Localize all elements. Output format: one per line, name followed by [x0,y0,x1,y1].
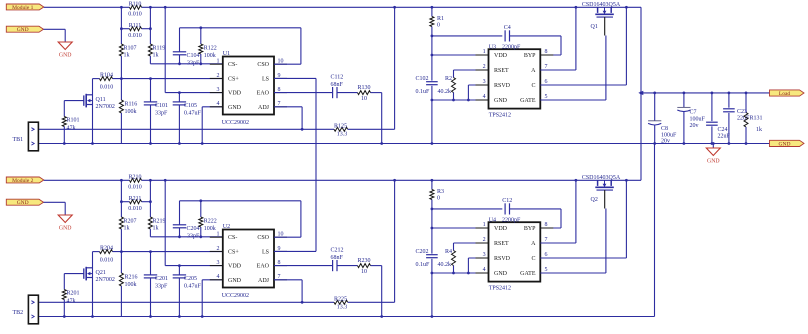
svg-text:Load: Load [779,91,791,97]
svg-text:R119: R119 [153,46,166,52]
svg-text:R110: R110 [129,1,142,7]
svg-text:CSD16403Q5A: CSD16403Q5A [582,2,621,8]
svg-text:GND: GND [707,159,720,165]
svg-text:RSVD: RSVD [494,256,511,262]
svg-text:GND: GND [228,278,242,284]
svg-text:Q11: Q11 [96,97,106,103]
svg-text:C: C [531,256,535,262]
svg-text:2: 2 [217,246,220,252]
svg-text:47k: 47k [67,299,76,305]
svg-text:33pF: 33pF [187,233,200,239]
svg-text:GND: GND [59,53,72,59]
svg-text:0.1uF: 0.1uF [416,262,431,268]
svg-text:R4: R4 [445,249,452,255]
svg-text:EAO: EAO [257,264,270,270]
svg-text:GND: GND [17,27,29,33]
svg-text:4: 4 [217,101,220,107]
svg-text:C202: C202 [416,249,429,255]
svg-text:LS: LS [262,76,269,82]
svg-text:R230: R230 [357,258,370,264]
svg-text:C105: C105 [184,103,197,109]
svg-text:1k: 1k [153,52,159,58]
svg-text:C205: C205 [184,276,197,282]
svg-text:VDD: VDD [494,226,508,232]
svg-text:GATE: GATE [520,98,536,104]
svg-text:ADJ: ADJ [258,278,270,284]
svg-text:33pF: 33pF [155,111,168,117]
svg-text:U3: U3 [489,44,496,50]
svg-text:U2: U2 [223,224,230,230]
svg-text:0: 0 [437,23,440,29]
svg-text:7: 7 [545,64,548,70]
svg-text:R207: R207 [124,219,137,225]
svg-text:3: 3 [217,260,220,266]
svg-text:6: 6 [545,252,548,258]
svg-text:R107: R107 [124,46,137,52]
svg-text:R1: R1 [437,16,444,22]
svg-text:8: 8 [545,49,548,55]
svg-text:CS-: CS- [228,235,237,241]
svg-text:TPS2412: TPS2412 [489,286,511,292]
svg-text:GATE: GATE [520,271,536,277]
svg-text:TB2: TB2 [13,310,24,316]
svg-text:0.010: 0.010 [100,84,114,90]
svg-text:20v: 20v [661,139,670,145]
svg-text:R116: R116 [125,102,138,108]
svg-text:C212: C212 [331,248,344,254]
svg-text:0.010: 0.010 [128,33,142,39]
svg-text:C24: C24 [718,127,728,133]
svg-text:EAO: EAO [257,91,270,97]
svg-text:0.1uF: 0.1uF [416,89,431,95]
svg-text:Q1: Q1 [591,24,598,30]
svg-text:4: 4 [483,267,486,273]
svg-text:CSO: CSO [257,235,269,241]
svg-text:40.2k: 40.2k [438,89,452,95]
svg-text:CSD16403Q5A: CSD16403Q5A [582,175,621,181]
svg-text:BYP: BYP [524,226,536,232]
svg-text:1k: 1k [153,225,159,231]
svg-text:R104: R104 [100,73,113,79]
svg-text:2: 2 [217,73,220,79]
svg-text:R130: R130 [357,85,370,91]
svg-text:R222: R222 [204,219,217,225]
svg-text:1: 1 [483,222,486,228]
svg-text:R225: R225 [334,296,347,302]
svg-text:R3: R3 [437,189,444,195]
svg-text:Module 2: Module 2 [12,178,33,184]
svg-text:1k: 1k [124,225,130,231]
svg-text:100k: 100k [125,282,137,288]
svg-text:R122: R122 [204,46,217,52]
svg-text:A: A [531,68,536,74]
svg-text:BYP: BYP [524,53,536,59]
svg-text:0.010: 0.010 [100,257,114,263]
svg-text:C101: C101 [155,103,168,109]
svg-text:U4: U4 [489,217,496,223]
svg-text:0.47uF: 0.47uF [184,111,202,117]
svg-text:7: 7 [545,237,548,243]
svg-text:R111: R111 [129,23,142,29]
svg-text:R101: R101 [67,118,80,124]
svg-text:47k: 47k [67,126,76,132]
svg-text:3: 3 [483,79,486,85]
svg-text:U1: U1 [223,51,230,57]
svg-text:1k: 1k [124,52,130,58]
svg-text:GND: GND [59,226,72,232]
svg-text:1: 1 [217,232,220,238]
svg-text:VDD: VDD [228,91,242,97]
svg-text:R204: R204 [100,246,113,252]
svg-text:10: 10 [361,269,367,275]
svg-text:C4: C4 [504,25,511,31]
svg-text:2200pF: 2200pF [502,45,521,51]
svg-text:TB1: TB1 [13,137,24,143]
svg-text:100k: 100k [204,53,216,59]
svg-text:C102: C102 [416,76,429,82]
svg-text:2N7002: 2N7002 [96,104,115,110]
svg-text:RSVD: RSVD [494,83,511,89]
svg-text:2: 2 [483,64,486,70]
svg-text:LS: LS [262,249,269,255]
svg-text:R2: R2 [445,76,452,82]
svg-text:CS+: CS+ [228,76,239,82]
svg-text:R216: R216 [125,275,138,281]
svg-text:68nF: 68nF [331,255,344,261]
svg-text:GND: GND [494,271,508,277]
svg-text:R131: R131 [750,116,763,122]
svg-text:C104: C104 [187,53,200,59]
svg-text:RSET: RSET [494,241,509,247]
svg-text:1: 1 [483,49,486,55]
svg-text:68nF: 68nF [331,82,344,88]
svg-text:5: 5 [545,94,548,100]
svg-text:ADJ: ADJ [258,105,270,111]
svg-text:TPS2412: TPS2412 [489,113,511,119]
svg-text:0.010: 0.010 [128,184,142,190]
svg-text:8: 8 [545,222,548,228]
svg-text:GND: GND [228,105,242,111]
svg-text:3: 3 [483,252,486,258]
svg-text:100uF: 100uF [661,132,677,138]
svg-text:R125: R125 [334,123,347,129]
svg-text:C112: C112 [331,75,344,81]
svg-text:R201: R201 [67,291,80,297]
svg-text:C12: C12 [502,198,512,204]
svg-text:1k: 1k [756,127,762,133]
svg-text:20v: 20v [690,123,699,129]
svg-text:Q21: Q21 [96,270,106,276]
svg-text:R219: R219 [153,219,166,225]
svg-text:R210: R210 [128,174,141,180]
svg-text:GND: GND [494,98,508,104]
svg-text:4: 4 [217,274,220,280]
svg-text:2: 2 [483,237,486,243]
svg-text:13.3: 13.3 [337,305,348,311]
svg-text:CS+: CS+ [228,249,239,255]
svg-text:13.3: 13.3 [337,132,348,138]
svg-text:5: 5 [545,267,548,273]
svg-text:6: 6 [545,79,548,85]
svg-text:C8: C8 [661,126,668,132]
svg-text:Module 1: Module 1 [12,5,33,11]
svg-text:33pF: 33pF [155,284,168,290]
svg-text:10: 10 [361,96,367,102]
svg-text:CSO: CSO [257,62,269,68]
svg-text:0.010: 0.010 [128,206,142,212]
svg-text:0.010: 0.010 [128,11,142,17]
svg-text:C201: C201 [155,276,168,282]
svg-text:0: 0 [437,196,440,202]
svg-text:UCC29002: UCC29002 [222,120,249,126]
svg-text:VDD: VDD [494,53,508,59]
svg-text:C: C [531,83,535,89]
svg-text:3: 3 [217,87,220,93]
svg-text:100k: 100k [204,226,216,232]
svg-text:CS-: CS- [228,62,237,68]
svg-text:A: A [531,241,536,247]
svg-text:VDD: VDD [228,264,242,270]
svg-text:C204: C204 [187,226,200,232]
svg-text:C7: C7 [690,110,697,116]
svg-text:2200pF: 2200pF [502,218,521,224]
svg-text:GND: GND [17,200,29,206]
svg-text:RSET: RSET [494,68,509,74]
svg-text:40.2k: 40.2k [438,262,452,268]
svg-text:1: 1 [217,59,220,65]
svg-text:100k: 100k [125,109,137,115]
svg-text:Q2: Q2 [591,197,598,203]
svg-text:UCC29002: UCC29002 [222,293,249,299]
svg-text:GND: GND [779,141,791,147]
svg-text:100uF: 100uF [690,116,706,122]
svg-text:33pF: 33pF [187,60,200,66]
svg-text:0.47uF: 0.47uF [184,284,202,290]
svg-text:R211: R211 [129,196,142,202]
svg-text:2N7002: 2N7002 [96,277,115,283]
svg-text:4: 4 [483,94,486,100]
